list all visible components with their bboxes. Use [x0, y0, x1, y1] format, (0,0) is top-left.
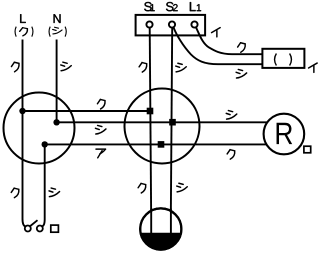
label white (S2 wire): [176, 63, 187, 72]
label black (L1 curve): [238, 43, 246, 52]
label white (S2 curve): [236, 69, 247, 78]
wire S2 to outdoor light: [174, 28, 263, 65]
wire black: left box to middle box: [23, 110, 151, 112]
wire: joint down to switch: [42, 144, 45, 226]
label black (right of middle box): [227, 150, 235, 159]
label black (line 1): [97, 99, 105, 108]
terminal S2: [169, 21, 175, 27]
label white (N wire): [61, 62, 72, 71]
wire red/black: switch return through boxes to lamp R: [45, 143, 268, 145]
terminal N label: [49, 14, 66, 36]
timer switch terminal block: [136, 15, 206, 36]
wire N (white) from source down to joint: [56, 40, 58, 123]
connection square 2: [169, 119, 176, 126]
wire L1 to outdoor light: [196, 27, 262, 54]
terminal L1: [191, 21, 197, 27]
terminal L label: [15, 14, 33, 36]
label S1: [144, 2, 154, 11]
ceiling rose: [140, 208, 181, 249]
node joint dot 2: [53, 119, 59, 125]
label red (line 3): [96, 149, 105, 158]
terminal S1: [146, 21, 152, 27]
connection square 1: [147, 108, 154, 115]
label ロ (lamp R): [304, 146, 311, 153]
label L1: [190, 2, 201, 11]
node joint dot 3: [42, 141, 48, 147]
wire L (black) from source down to switch: [23, 40, 26, 227]
label black (switch left wire): [11, 188, 19, 197]
outdoor light box: [262, 49, 304, 68]
label black (S1 wire): [139, 63, 147, 72]
label white (right of middle box): [226, 111, 237, 120]
label black (rose left wire): [138, 183, 146, 192]
wire S1 down to ceiling rose: [150, 28, 152, 234]
label white (switch right wire): [49, 188, 60, 197]
label black (L wire): [11, 62, 19, 71]
label イ terminal block: [212, 28, 221, 37]
connection square 3: [158, 141, 165, 148]
label white (rose right wire): [177, 183, 188, 192]
switch contacts: [25, 226, 43, 232]
label イ outdoor light: [309, 63, 318, 72]
wire S2 down to ceiling rose: [171, 28, 173, 234]
label S2: [166, 2, 178, 11]
label white (line 2): [95, 125, 106, 134]
lamp receptacle R: [264, 114, 305, 155]
label ロ (switch): [51, 225, 59, 232]
node joint dot 1: [19, 108, 25, 114]
junction box middle: [125, 89, 200, 164]
switch lever: [30, 220, 37, 226]
wire white: left box through middle box to lamp R: [57, 121, 268, 123]
junction box left: [4, 93, 75, 164]
